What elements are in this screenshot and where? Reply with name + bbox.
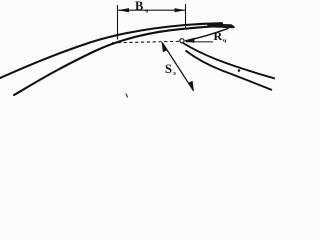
dimension B: left arrowhead	[118, 8, 129, 12]
dashed axis line	[112, 41, 179, 43]
branch rail upper (diverging curve to lower right)	[183, 43, 275, 79]
R horizontal tail line	[186, 41, 213, 43]
dimension B: right arrowhead	[175, 8, 186, 12]
svg-text:э: э	[173, 70, 176, 77]
dimension B: horizontal line	[118, 9, 186, 11]
R leader arc (from circle to main line)	[185, 28, 228, 41]
R leader arrowhead at circle	[185, 38, 195, 43]
svg-text:R: R	[214, 29, 223, 43]
svg-text:ч: ч	[223, 37, 227, 44]
dimension B: right extension line	[185, 4, 187, 29]
S arrowhead top (pointing up-left to dashed line)	[162, 42, 167, 53]
svg-text:S: S	[165, 62, 172, 76]
svg-text:ч: ч	[145, 8, 149, 15]
rail lower (inner rail, converges with upper toward right)	[14, 25, 227, 95]
node circle (curve centre point)	[180, 39, 184, 43]
S arrowhead bottom (pointing down-right)	[189, 81, 194, 92]
small speck bottom centre	[126, 94, 128, 98]
dot on branch axis	[238, 69, 241, 72]
rail upper (outer stock rail, long curve lower-left to upper-right)	[0, 23, 222, 78]
svg-text:B: B	[135, 0, 143, 13]
merged thick end of main line	[208, 25, 234, 28]
S leader line (diagonal, double-headed)	[162, 43, 193, 91]
dimension B: left extension line	[117, 5, 119, 40]
branch rail lower (parallel diverging curve)	[186, 51, 273, 91]
